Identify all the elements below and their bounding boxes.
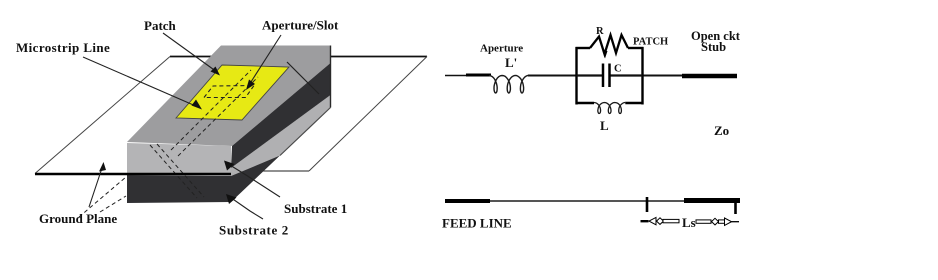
svg-text:Substrate 2: Substrate 2 (219, 223, 289, 238)
svg-text:Ls: Ls (682, 215, 696, 230)
svg-text:R: R (596, 26, 604, 37)
svg-text:PATCH: PATCH (633, 37, 668, 48)
svg-text:Aperture/Slot: Aperture/Slot (262, 18, 339, 33)
svg-text:Patch: Patch (144, 18, 177, 33)
svg-text:Stub: Stub (701, 40, 726, 54)
svg-text:L: L (600, 118, 609, 133)
svg-text:FEED LINE: FEED LINE (442, 216, 512, 231)
svg-text:C: C (614, 64, 622, 75)
svg-text:Aperture: Aperture (480, 43, 523, 55)
svg-text:Substrate 1: Substrate 1 (284, 201, 347, 216)
svg-text:Ground Plane: Ground Plane (39, 211, 117, 226)
svg-text:Zo: Zo (714, 123, 729, 138)
svg-text:Microstrip Line: Microstrip Line (16, 40, 110, 55)
svg-text:L': L' (505, 55, 517, 70)
